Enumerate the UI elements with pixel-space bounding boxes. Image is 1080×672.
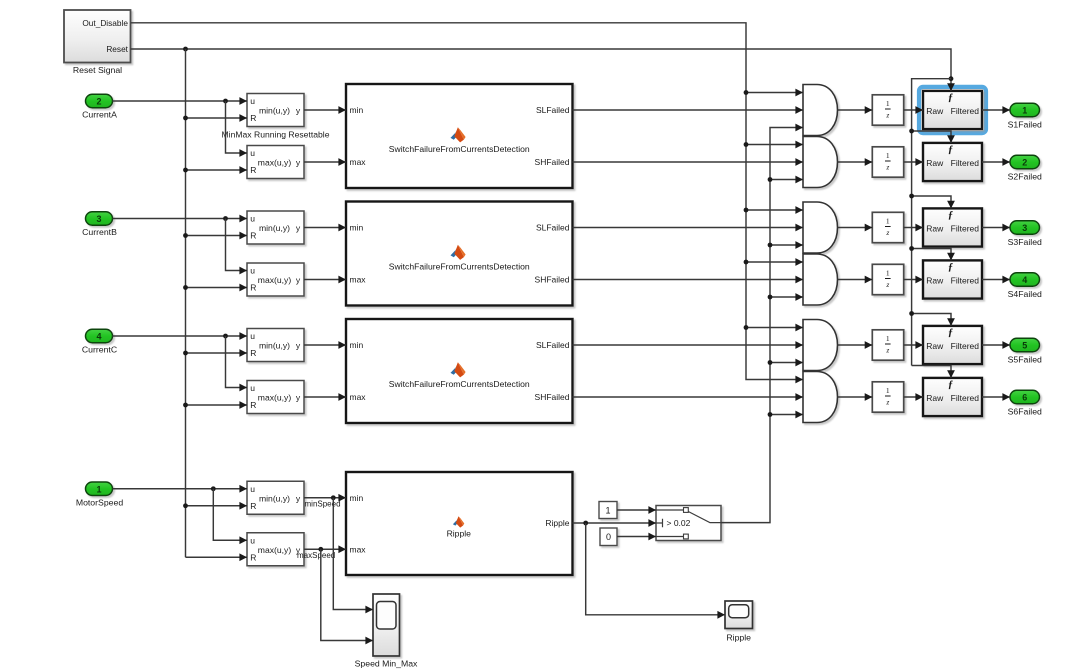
svg-text:max(u,y): max(u,y): [258, 545, 292, 555]
wire reset to R y=405: [186, 404, 248, 406]
svg-text:R: R: [250, 501, 256, 511]
svg-text:Filtered: Filtered: [951, 224, 980, 234]
svg-text:Raw: Raw: [926, 341, 944, 351]
wire minmax out y=162: [304, 161, 346, 163]
svg-text:SLFailed: SLFailed: [536, 340, 570, 350]
wire minSpeed to scope: [333, 498, 373, 610]
subsystem Raw/Filtered 1: [923, 91, 982, 129]
svg-text:> 0.02: > 0.02: [667, 518, 691, 528]
svg-text:Raw: Raw: [926, 393, 944, 403]
svg-text:SwitchFailureFromCurrentsDetec: SwitchFailureFromCurrentsDetection: [389, 144, 530, 154]
svg-text:SLFailed: SLFailed: [536, 223, 570, 233]
wire gate out y=279.5: [838, 279, 872, 281]
wire trigger branch 2: [912, 131, 951, 143]
wire Ripple out: [573, 522, 657, 524]
svg-text:2: 2: [96, 97, 101, 107]
svg-text:y: y: [296, 493, 301, 503]
svg-text:SHFailed: SHFailed: [535, 157, 570, 167]
svg-text:min(u,y): min(u,y): [259, 341, 290, 351]
svg-text:R: R: [250, 165, 256, 175]
wire CurrentC to min u: [113, 335, 248, 337]
block min(u,y) row y=497.75: [247, 481, 304, 514]
constant 1: [599, 502, 617, 519]
svg-text:CurrentC: CurrentC: [82, 345, 117, 355]
subsystem Raw/Filtered 2: [923, 143, 982, 181]
wire switch branch y=179.5: [770, 179, 803, 181]
svg-text:ƒ: ƒ: [948, 262, 953, 273]
svg-text:R: R: [250, 552, 256, 562]
wire const 1: [617, 509, 656, 511]
wire MotorSpeed branch to max u: [213, 489, 247, 541]
svg-text:1: 1: [96, 484, 101, 494]
svg-text:min(u,y): min(u,y): [259, 106, 290, 116]
wire switch branch y=297: [770, 296, 803, 298]
outport S1Failed: [1008, 103, 1042, 129]
wire CurrentB to min u: [113, 218, 248, 220]
wire minmax out y=397: [304, 396, 346, 398]
wire minmax out y=110: [304, 109, 346, 111]
wire maxSpeed: [304, 548, 346, 550]
svg-text:ƒ: ƒ: [948, 92, 953, 103]
svg-text:SwitchFailureFromCurrentsDetec: SwitchFailureFromCurrentsDetection: [389, 262, 530, 272]
wire filtered out y=345: [982, 344, 1010, 346]
matlab logo Ripple: [453, 516, 464, 527]
svg-text:R: R: [250, 348, 256, 358]
wire filtered out y=110: [982, 109, 1010, 111]
svg-text:y: y: [296, 158, 301, 168]
wire failure signal y=345: [573, 344, 804, 346]
svg-text:min(u,y): min(u,y): [259, 223, 290, 233]
svg-text:1: 1: [886, 99, 890, 108]
inport CurrentA: [82, 94, 117, 119]
svg-text:Ripple: Ripple: [545, 518, 569, 528]
wire switch out trunk: [721, 128, 803, 523]
svg-text:z: z: [885, 110, 889, 119]
svg-text:2: 2: [1022, 158, 1027, 168]
logic gate 2: [803, 137, 838, 188]
wire Out_Disable branch to gate y=144.5: [746, 144, 803, 146]
svg-text:z: z: [885, 280, 889, 289]
wire delay out y=279.5: [904, 279, 923, 281]
wire failure signal y=162: [573, 161, 804, 163]
svg-text:SHFailed: SHFailed: [535, 275, 570, 285]
wire Out_Disable trunk: [131, 23, 804, 380]
wire minmax out y=345: [304, 344, 346, 346]
svg-text:u: u: [250, 148, 255, 158]
svg-text:R: R: [250, 400, 256, 410]
svg-text:u: u: [250, 214, 255, 224]
svg-text:y: y: [296, 275, 301, 285]
svg-text:y: y: [296, 393, 301, 403]
svg-text:Speed Min_Max: Speed Min_Max: [355, 658, 418, 668]
svg-text:Filtered: Filtered: [951, 341, 980, 351]
svg-text:u: u: [250, 331, 255, 341]
wire gate out y=227.5: [838, 227, 872, 229]
scope Ripple: [725, 601, 753, 643]
svg-text:S2Failed: S2Failed: [1008, 172, 1042, 182]
svg-text:Filtered: Filtered: [951, 158, 980, 168]
svg-text:min(u,y): min(u,y): [259, 493, 290, 503]
switch > 0.02: [656, 506, 721, 541]
wire gate out y=397: [838, 396, 872, 398]
svg-text:u: u: [250, 96, 255, 106]
svg-text:R: R: [250, 283, 256, 293]
subsystem Reset Signal: [64, 10, 131, 75]
wire failure signal y=397: [573, 396, 804, 398]
svg-text:1: 1: [605, 505, 610, 515]
wire Ripple to scope: [586, 523, 725, 615]
block SwitchFailureFromCurrentsDetection 1: [346, 84, 573, 188]
inport CurrentB: [82, 212, 117, 237]
svg-text:S1Failed: S1Failed: [1008, 120, 1042, 130]
wire trigger branch 5: [912, 314, 951, 326]
wire const 0: [617, 536, 656, 538]
wire Out_Disable branch to gate y=92.5: [746, 92, 803, 94]
svg-text:max: max: [350, 275, 367, 285]
logic gate 4: [803, 254, 838, 305]
wire minmax out y=227.5: [304, 227, 346, 229]
logic gate 3: [803, 202, 838, 253]
svg-text:Filtered: Filtered: [951, 393, 980, 403]
unit delay 1/z 5: [872, 330, 903, 360]
block max(u,y) row y=162: [247, 146, 304, 179]
svg-text:ƒ: ƒ: [948, 327, 953, 338]
wire failure signal y=110: [573, 109, 804, 111]
unit delay 1/z 3: [872, 212, 903, 242]
svg-text:SwitchFailureFromCurrentsDetec: SwitchFailureFromCurrentsDetection: [389, 379, 530, 389]
svg-text:max: max: [350, 544, 367, 554]
logic gate 1: [803, 85, 838, 136]
outport S3Failed: [1008, 221, 1042, 247]
svg-text:max(u,y): max(u,y): [258, 158, 292, 168]
svg-text:minSpeed: minSpeed: [305, 499, 341, 508]
wire delay out y=345: [904, 344, 923, 346]
block max(u,y) row y=279.5: [247, 263, 304, 296]
svg-text:y: y: [296, 341, 301, 351]
svg-text:1: 1: [886, 386, 890, 395]
block min(u,y) row y=110: [247, 94, 304, 127]
svg-text:Out_Disable: Out_Disable: [82, 18, 128, 28]
subsystem Raw/Filtered 3: [923, 208, 982, 246]
svg-text:1: 1: [886, 151, 890, 160]
matlab logo block 2: [451, 245, 466, 260]
svg-text:max(u,y): max(u,y): [258, 275, 292, 285]
wire reset to R y=557.25: [186, 556, 248, 558]
wire switch branch y=245: [770, 244, 803, 246]
svg-text:0: 0: [606, 532, 611, 542]
wire filtered out y=162: [982, 161, 1010, 163]
wire CurrentA branch to max u: [226, 101, 248, 153]
wire Out_Disable branch to gate y=210: [746, 209, 803, 211]
svg-text:SHFailed: SHFailed: [535, 392, 570, 402]
wire Out_Disable branch to gate y=327.5: [746, 327, 803, 329]
inport CurrentC: [82, 329, 117, 354]
wire reset to R y=118: [186, 117, 248, 119]
svg-text:z: z: [885, 162, 889, 171]
svg-text:4: 4: [96, 332, 101, 342]
svg-text:max: max: [350, 392, 367, 402]
svg-text:max(u,y): max(u,y): [258, 393, 292, 403]
scope Speed Min_Max: [355, 594, 418, 668]
outport S5Failed: [1008, 338, 1042, 364]
block min(u,y) row y=227.5: [247, 211, 304, 244]
wire minmax out y=279.5: [304, 279, 346, 281]
svg-text:Ripple: Ripple: [726, 633, 751, 643]
logic gate 5: [803, 320, 838, 371]
subsystem Raw/Filtered 6: [923, 378, 982, 416]
logic gate 6: [803, 372, 838, 423]
svg-text:Raw: Raw: [926, 158, 944, 168]
junction reset split: [183, 47, 188, 52]
subsystem Raw/Filtered 5: [923, 326, 982, 364]
unit delay 1/z 2: [872, 147, 903, 177]
svg-text:Raw: Raw: [926, 276, 944, 286]
svg-text:CurrentA: CurrentA: [82, 110, 117, 120]
block max(u,y) row y=549.25: [247, 533, 304, 566]
svg-text:5: 5: [1022, 341, 1027, 351]
junction trigger 1: [949, 76, 954, 81]
wire maxSpeed to scope: [321, 549, 373, 640]
block min(u,y) row y=345: [247, 329, 304, 362]
wire gate out y=110: [838, 109, 872, 111]
svg-text:CurrentB: CurrentB: [82, 227, 117, 237]
block max(u,y) row y=397: [247, 381, 304, 414]
svg-text:u: u: [250, 383, 255, 393]
svg-text:1: 1: [886, 334, 890, 343]
svg-text:4: 4: [1022, 275, 1027, 285]
svg-text:6: 6: [1022, 393, 1027, 403]
svg-text:z: z: [885, 397, 889, 406]
inport MotorSpeed: [76, 482, 123, 507]
svg-text:S4Failed: S4Failed: [1008, 289, 1042, 299]
svg-text:u: u: [250, 266, 255, 276]
svg-text:min: min: [350, 105, 364, 115]
block SwitchFailureFromCurrentsDetection 3: [346, 319, 573, 423]
svg-text:min: min: [350, 340, 364, 350]
wire reset to R y=287.5: [186, 287, 248, 289]
svg-text:min: min: [350, 493, 364, 503]
wire Out_Disable branch to gate y=262: [746, 261, 803, 263]
svg-text:ƒ: ƒ: [948, 379, 953, 390]
svg-text:y: y: [296, 223, 301, 233]
wire MotorSpeed to min u: [113, 488, 248, 490]
wire reset to R y=235.5: [186, 235, 248, 237]
wire gate out y=162: [838, 161, 872, 163]
unit delay 1/z 1: [872, 95, 903, 125]
wire CurrentA to min u: [113, 100, 248, 102]
svg-text:Ripple: Ripple: [447, 529, 472, 539]
svg-text:SLFailed: SLFailed: [536, 105, 570, 115]
outport S4Failed: [1008, 273, 1042, 299]
svg-text:R: R: [250, 113, 256, 123]
wire filtered out y=227.5: [982, 227, 1010, 229]
outport S6Failed: [1008, 390, 1042, 416]
wire trigger branch 3: [912, 196, 951, 208]
svg-text:S5Failed: S5Failed: [1008, 355, 1042, 365]
wire minSpeed: [304, 497, 346, 499]
svg-text:Raw: Raw: [926, 106, 944, 116]
wire delay out y=227.5: [904, 227, 923, 229]
svg-text:1: 1: [886, 269, 890, 278]
svg-text:Filtered: Filtered: [951, 106, 980, 116]
svg-text:Filtered: Filtered: [951, 276, 980, 286]
svg-text:MotorSpeed: MotorSpeed: [76, 497, 123, 507]
wire reset to R y=505.75: [186, 505, 248, 507]
svg-text:3: 3: [96, 214, 101, 224]
wire trigger chain vertical: [912, 79, 951, 366]
svg-text:u: u: [250, 484, 255, 494]
unit delay 1/z 6: [872, 382, 903, 412]
svg-text:1: 1: [1022, 106, 1027, 116]
svg-text:S6Failed: S6Failed: [1008, 407, 1042, 417]
unit delay 1/z 4: [872, 264, 903, 294]
svg-text:3: 3: [1022, 223, 1027, 233]
block SwitchFailureFromCurrentsDetection 2: [346, 202, 573, 306]
svg-text:z: z: [885, 345, 889, 354]
svg-text:Reset: Reset: [106, 44, 128, 54]
wire delay out y=162: [904, 161, 923, 163]
wire reset to R y=170: [186, 169, 248, 171]
matlab logo block 1: [451, 127, 466, 142]
svg-text:z: z: [885, 228, 889, 237]
wire filtered out y=397: [982, 396, 1010, 398]
wire CurrentB branch to max u: [226, 219, 248, 271]
wire gate out y=345: [838, 344, 872, 346]
wire switch branch y=362.5: [770, 362, 803, 364]
svg-text:R: R: [250, 231, 256, 241]
wire filtered out y=279.5: [982, 279, 1010, 281]
svg-text:S3Failed: S3Failed: [1008, 237, 1042, 247]
subsystem Raw/Filtered 4: [923, 260, 982, 298]
matlab logo block 3: [451, 362, 466, 377]
selection highlight S1 filter: [919, 87, 986, 133]
svg-text:max: max: [350, 157, 367, 167]
svg-text:u: u: [250, 535, 255, 545]
svg-text:maxSpeed: maxSpeed: [297, 551, 335, 560]
svg-text:Reset Signal: Reset Signal: [73, 65, 122, 75]
wire Reset trunk: [131, 49, 952, 91]
svg-text:min: min: [350, 223, 364, 233]
constant 0: [600, 528, 617, 546]
block Ripple: [346, 472, 573, 575]
wire delay out y=110: [904, 109, 923, 111]
wire delay out y=397: [904, 396, 923, 398]
wire failure signal y=227.5: [573, 227, 804, 229]
svg-text:MinMax Running Resettable: MinMax Running Resettable: [222, 130, 330, 140]
svg-text:1: 1: [886, 217, 890, 226]
wire reset vertical: [185, 49, 187, 557]
wire reset to R y=353: [186, 352, 248, 354]
wire failure signal y=279.5: [573, 279, 804, 281]
outport S2Failed: [1008, 155, 1042, 181]
svg-text:ƒ: ƒ: [948, 144, 953, 155]
wire trigger branch 6: [912, 366, 951, 378]
svg-text:ƒ: ƒ: [948, 210, 953, 221]
wire switch branch y=414.5: [770, 414, 803, 416]
svg-text:Raw: Raw: [926, 224, 944, 234]
svg-text:y: y: [296, 106, 301, 116]
wire CurrentC branch to max u: [226, 336, 248, 388]
wire trigger branch 4: [912, 249, 951, 261]
